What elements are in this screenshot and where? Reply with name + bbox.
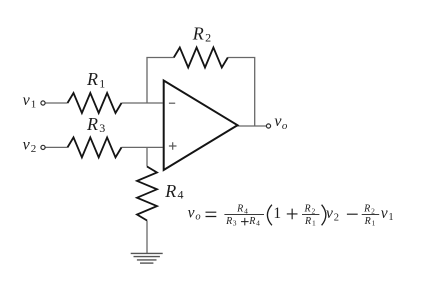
svg-text:R: R [304,204,311,215]
svg-text:2: 2 [31,143,37,155]
svg-text:R: R [86,69,98,89]
svg-text:R: R [225,216,232,227]
svg-text:2: 2 [371,206,375,215]
svg-text:R: R [363,204,370,215]
svg-text:2: 2 [205,31,211,45]
svg-text:3: 3 [99,121,105,135]
svg-text:4: 4 [178,188,184,202]
svg-text:R: R [364,216,371,227]
svg-text:o: o [195,212,200,223]
svg-text:1: 1 [31,99,37,111]
svg-text:4: 4 [256,219,260,228]
svg-text:R: R [304,216,311,227]
svg-text:v: v [23,92,31,109]
svg-text:1: 1 [99,76,105,90]
svg-text:1: 1 [273,205,281,222]
svg-text:4: 4 [244,206,248,215]
svg-text:2: 2 [334,212,339,223]
svg-text:v: v [381,205,388,222]
svg-text:1: 1 [312,219,316,228]
svg-text:v: v [188,205,195,222]
svg-text:R: R [236,204,243,215]
svg-text:1: 1 [388,212,393,223]
svg-text:o: o [282,120,288,132]
svg-text:R: R [248,216,255,227]
svg-text:R: R [192,24,204,44]
svg-text:R: R [86,114,98,134]
svg-text:R: R [164,181,176,201]
svg-text:v: v [326,205,333,222]
svg-text:3: 3 [233,219,237,228]
svg-text:v: v [23,137,31,154]
svg-text:1: 1 [372,219,376,228]
svg-text:2: 2 [312,206,316,215]
